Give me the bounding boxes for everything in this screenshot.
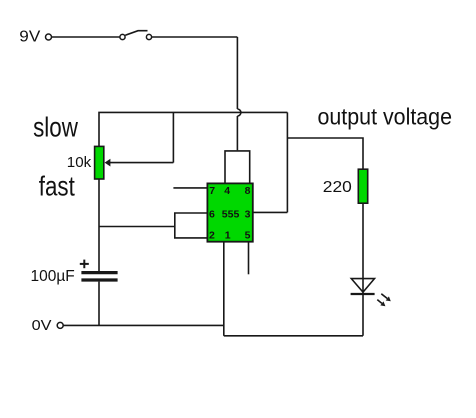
wire resistor to LED to 0V bbox=[362, 203, 364, 336]
resistor R1 220 body bbox=[358, 169, 367, 203]
LED light arrow 2 bbox=[377, 300, 385, 307]
svg-text:1: 1 bbox=[225, 229, 231, 241]
terminal 0V bbox=[57, 322, 63, 328]
wire supply drop with hop bbox=[236, 37, 238, 109]
LED light arrow 1 bbox=[381, 294, 391, 302]
wire pin3 vertical bbox=[286, 112, 288, 212]
wire pins 4 and 8 supply box bbox=[225, 151, 250, 184]
LED D1 cathode bar bbox=[351, 293, 375, 295]
svg-text:2: 2 bbox=[209, 229, 215, 241]
capacitor C1 plates bbox=[81, 273, 117, 280]
wire wiper to top net bbox=[172, 112, 174, 162]
svg-text:9V: 9V bbox=[19, 28, 41, 45]
svg-text:5: 5 bbox=[245, 229, 251, 241]
potentiometer VR1 10k body bbox=[95, 146, 104, 179]
LED D1 triangle bbox=[351, 279, 374, 293]
switch S1 bbox=[120, 31, 152, 40]
wire junction to pins 6 and 2 bbox=[99, 226, 175, 228]
svg-text:7: 7 bbox=[209, 185, 215, 197]
wire 0V rail bbox=[63, 324, 224, 326]
svg-text:output voltage: output voltage bbox=[318, 104, 453, 130]
potentiometer wiper arrow bbox=[105, 159, 174, 167]
wire capacitor to 0V rail bbox=[98, 282, 100, 326]
svg-text:555: 555 bbox=[222, 208, 240, 220]
wire switch to top-right corner bbox=[152, 36, 238, 38]
svg-text:fast: fast bbox=[39, 170, 75, 201]
svg-text:8: 8 bbox=[245, 185, 251, 197]
op-amp U1 555 body bbox=[207, 183, 252, 241]
wire pin 7 stub bbox=[173, 187, 207, 189]
svg-text:4: 4 bbox=[224, 185, 230, 197]
svg-text:6: 6 bbox=[209, 208, 215, 220]
svg-text:3: 3 bbox=[245, 208, 251, 220]
wire 9V to switch bbox=[52, 36, 120, 38]
wire pin 1 to 0V bbox=[223, 242, 225, 336]
wire pins 6 and 2 box bbox=[175, 213, 208, 238]
wire pin 3 bbox=[253, 211, 288, 213]
terminal 9V bbox=[46, 34, 52, 40]
wire hop over pin3 net bbox=[237, 109, 241, 116]
wire output to resistor bbox=[287, 138, 363, 169]
svg-text:0V: 0V bbox=[32, 317, 52, 334]
wire pin 5 stub bbox=[248, 242, 250, 275]
svg-text:220: 220 bbox=[323, 179, 352, 196]
svg-text:100µF: 100µF bbox=[31, 268, 75, 285]
svg-text:slow: slow bbox=[33, 112, 78, 143]
wire pot top up and across to pin3 vertical bbox=[99, 112, 287, 146]
capacitor C1 plus sign bbox=[80, 260, 89, 269]
wire pot bottom to capacitor bbox=[98, 179, 100, 271]
svg-text:10k: 10k bbox=[67, 154, 92, 171]
wire supply drop lower bbox=[236, 116, 238, 150]
wire lower 0V rail to LED bbox=[224, 335, 363, 337]
